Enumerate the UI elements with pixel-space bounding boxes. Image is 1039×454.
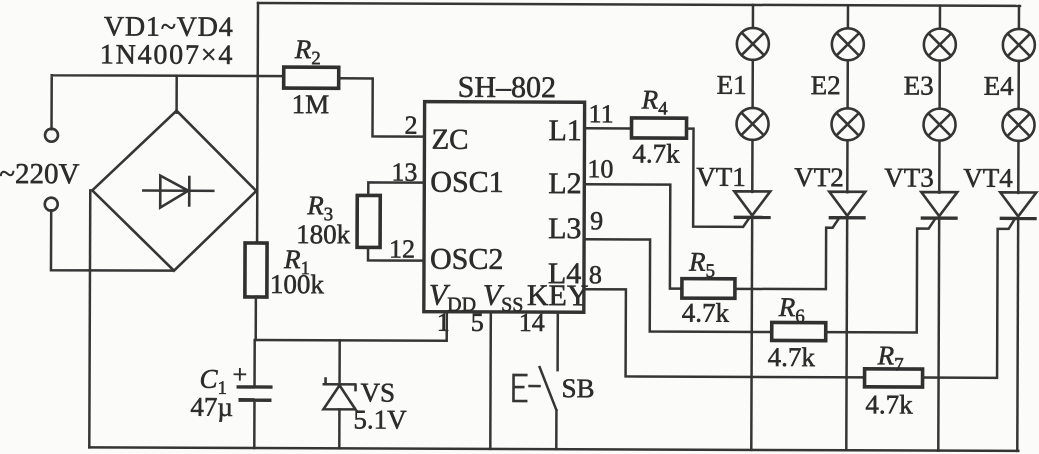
wire: R1 bottom to VDD node	[254, 297, 257, 340]
wire: R5 to VT2 gate	[735, 218, 839, 289]
pushbutton SB	[513, 375, 527, 401]
wire: L1 pin 11 to R4	[585, 127, 632, 130]
svg-text:VS: VS	[360, 377, 395, 407]
thyristor VT2	[829, 192, 865, 216]
svg-text:ZC: ZC	[431, 124, 468, 156]
wire: DC+ vertical from bridge right vertex to top rail and down to R1	[256, 3, 259, 243]
wire: L4 pin 8 down to R7	[584, 289, 865, 377]
wire: L2 pin 10 down to R5	[584, 184, 682, 288]
wire: L3 pin 9 down to R6	[584, 239, 772, 332]
thyristor VT1	[734, 191, 770, 215]
svg-text:4.7k: 4.7k	[682, 298, 730, 328]
svg-text:L2: L2	[548, 167, 581, 200]
capacitor C1	[253, 340, 256, 386]
resistor R2	[284, 67, 339, 88]
lamp E3 upper	[924, 29, 956, 61]
wire: VDD pin 1 down and left to R1/C1 node	[256, 311, 447, 341]
svg-text:VT1: VT1	[696, 162, 746, 192]
wire: AC bottom line to bridge bottom vertex	[51, 210, 173, 270]
lamp E4 lower	[1002, 109, 1034, 141]
svg-text:+: +	[233, 360, 248, 389]
resistor R3	[357, 195, 380, 247]
svg-text:10: 10	[587, 154, 613, 183]
wire: R4 to VT1 gate	[686, 129, 750, 227]
svg-text:VT2: VT2	[794, 162, 844, 192]
svg-text:SB: SB	[561, 373, 594, 403]
svg-text:5: 5	[471, 308, 484, 337]
svg-text:12: 12	[389, 235, 415, 264]
wire: bridge top stub	[175, 76, 178, 113]
svg-text:11: 11	[589, 99, 614, 128]
svg-text:2: 2	[404, 111, 417, 140]
svg-text:L1: L1	[548, 114, 581, 147]
svg-text:OSC1: OSC1	[430, 166, 503, 199]
svg-text:1N4007×4: 1N4007×4	[100, 39, 235, 71]
resistor R5	[682, 279, 735, 299]
wire: VSS pin 5 to bottom rail	[489, 312, 492, 449]
svg-text:VD1~VD4: VD1~VD4	[104, 11, 234, 42]
svg-text:8: 8	[589, 260, 602, 289]
svg-text:9: 9	[590, 206, 603, 235]
svg-text:E4: E4	[984, 71, 1015, 101]
resistor R6	[772, 322, 826, 340]
svg-text:E3: E3	[904, 70, 934, 100]
svg-text:OSC2: OSC2	[430, 243, 503, 276]
lamp E1 lower	[736, 108, 768, 140]
svg-text:~220V: ~220V	[0, 158, 80, 190]
svg-text:VT3: VT3	[884, 162, 934, 192]
diode inside bridge	[143, 189, 213, 192]
svg-text:SH–802: SH–802	[458, 71, 556, 104]
svg-text:4.7k: 4.7k	[768, 342, 816, 372]
lamp string 3 wires	[938, 6, 941, 193]
lamp E3 lower	[923, 109, 955, 141]
lamp E1 upper	[737, 28, 769, 60]
svg-text:1M: 1M	[292, 89, 330, 119]
wire: R3 bottom to OSC2 pin 12	[368, 247, 424, 260]
svg-text:4.7k: 4.7k	[865, 389, 913, 419]
wire: KEY pin 14 down to switch	[556, 312, 559, 370]
lamp E2 upper	[832, 28, 864, 60]
lamp E4 upper	[1003, 29, 1035, 61]
terminal: AC input top	[45, 129, 58, 142]
wire: R2 to ZC pin 2	[338, 78, 424, 136]
svg-text:VT4: VT4	[963, 163, 1013, 193]
lamp string 2 wires	[846, 5, 849, 192]
svg-text:100k: 100k	[270, 269, 325, 299]
resistor R1	[245, 243, 267, 297]
svg-text:13: 13	[391, 158, 417, 187]
op IC U1 SH-802	[424, 102, 585, 313]
bridge rectifier VD1~VD4	[92, 110, 257, 271]
lamp E2 lower	[831, 108, 863, 140]
terminal: AC input bottom	[45, 198, 58, 211]
wire: top supply rail	[258, 3, 1020, 6]
svg-text:5.1V: 5.1V	[353, 404, 407, 434]
resistor R7	[865, 369, 923, 387]
svg-text:14: 14	[519, 308, 545, 337]
wire: R7 to VT4 gate	[923, 220, 1015, 378]
svg-text:E1: E1	[717, 70, 747, 100]
svg-text:4.7k: 4.7k	[632, 138, 680, 168]
thyristor VT3	[921, 192, 957, 216]
svg-text:L3: L3	[548, 212, 581, 245]
lamp string 1 wires	[751, 5, 754, 192]
wire: DC- from bridge left vertex down to bottom rail	[88, 190, 91, 447]
resistor R4	[631, 118, 686, 138]
wire: R6 to VT3 gate	[826, 219, 935, 332]
zener diode VS	[338, 340, 341, 384]
svg-text:L4: L4	[548, 257, 581, 290]
svg-text:180k: 180k	[296, 219, 351, 249]
wire: bottom supply rail	[89, 447, 1018, 451]
svg-text:47µ: 47µ	[190, 392, 233, 422]
wire: OSC1 pin 13 to R3 top	[368, 182, 424, 195]
thyristor VT4	[1000, 192, 1036, 216]
svg-text:E2: E2	[811, 70, 841, 100]
wire: AC top line to R2	[52, 75, 284, 130]
lamp string 4 wires	[1017, 6, 1020, 193]
